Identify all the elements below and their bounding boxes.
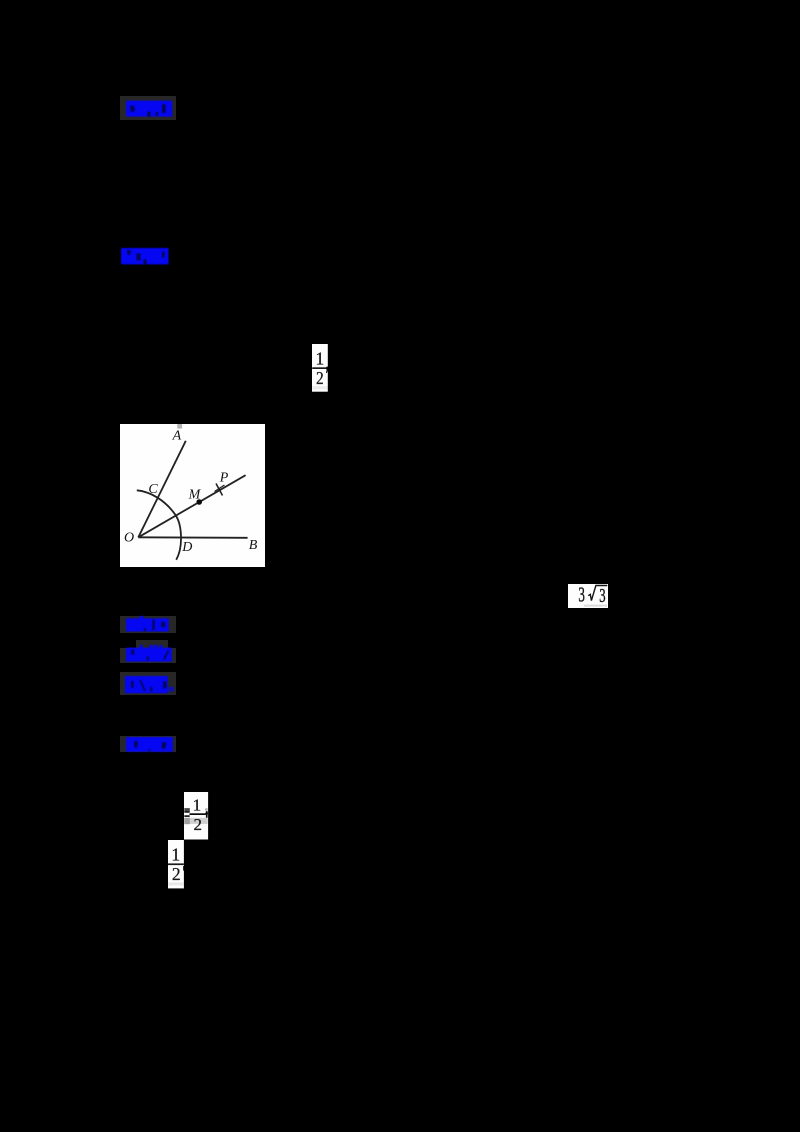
math image: 1/2 second [168, 840, 184, 889]
svg-text:O: O [124, 531, 134, 546]
answer row D highlight [120, 736, 176, 752]
answer row B upper highlight [136, 640, 168, 648]
ray OP [138, 475, 245, 537]
answer row A highlight [120, 616, 175, 633]
grey notch above A [177, 424, 182, 429]
svg-text:C: C [148, 482, 158, 497]
svg-text:D: D [181, 540, 192, 555]
blue title blob 2 [121, 248, 169, 265]
ray OA [138, 441, 186, 538]
answer row B highlight [120, 648, 175, 663]
svg-text:2: 2 [316, 368, 324, 388]
svg-text:1: 1 [171, 844, 180, 864]
cross mark near P [216, 484, 223, 496]
geometry figure image [120, 424, 265, 567]
svg-text:3: 3 [599, 584, 605, 607]
labels [124, 429, 258, 555]
svg-text:P: P [219, 471, 229, 486]
point M dot [196, 499, 202, 505]
answer row D blue text [126, 737, 173, 752]
svg-text:B: B [249, 538, 258, 553]
answer row B blue text [126, 645, 172, 662]
answer row A blue text [126, 616, 169, 632]
svg-text:2: 2 [172, 863, 181, 883]
math image: fraction 1/2 [312, 344, 328, 392]
answer row C blue text [125, 676, 175, 694]
arc CD [137, 490, 181, 560]
math image: = 1/2 , [184, 792, 209, 840]
svg-text:3: 3 [578, 584, 585, 606]
svg-text:1: 1 [316, 349, 325, 369]
svg-text:A: A [172, 429, 182, 444]
highlight box 1 [120, 96, 176, 120]
answer row C highlight [120, 672, 175, 696]
math image: 3*sqrt(3) [568, 584, 608, 608]
svg-text:M: M [188, 488, 202, 503]
svg-text:1: 1 [193, 795, 202, 814]
svg-text:2: 2 [193, 815, 202, 834]
ray OB [138, 536, 247, 539]
blue title blob 1 [126, 100, 173, 117]
